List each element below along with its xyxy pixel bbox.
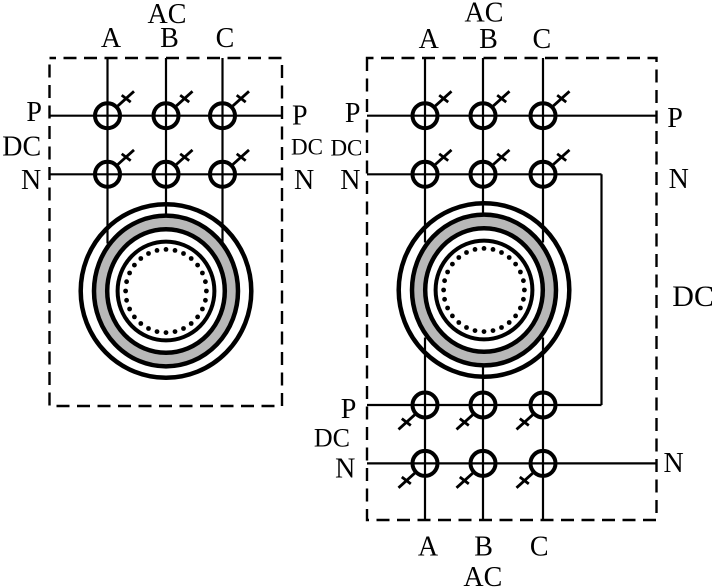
svg-text:N: N <box>664 448 684 479</box>
svg-text:DC: DC <box>314 424 350 453</box>
svg-text:P: P <box>26 97 42 128</box>
svg-text:N: N <box>294 165 314 196</box>
svg-text:DC: DC <box>291 135 323 160</box>
svg-text:A: A <box>419 24 440 55</box>
svg-text:P: P <box>292 101 308 132</box>
svg-text:DC: DC <box>672 280 712 313</box>
svg-text:C: C <box>216 23 235 54</box>
svg-text:C: C <box>532 24 551 55</box>
svg-text:N: N <box>21 165 41 196</box>
svg-text:A: A <box>418 532 439 563</box>
svg-text:B: B <box>479 24 498 55</box>
svg-text:N: N <box>669 164 689 195</box>
svg-text:AC: AC <box>463 562 502 587</box>
svg-text:P: P <box>345 98 361 129</box>
svg-text:P: P <box>667 103 683 134</box>
svg-text:B: B <box>474 532 493 563</box>
svg-text:DC: DC <box>2 132 41 163</box>
svg-text:B: B <box>160 23 179 54</box>
svg-text:N: N <box>335 454 355 485</box>
svg-text:A: A <box>101 23 122 54</box>
svg-text:N: N <box>340 165 360 196</box>
svg-text:DC: DC <box>330 136 362 161</box>
svg-text:P: P <box>341 394 357 425</box>
svg-text:C: C <box>530 532 549 563</box>
